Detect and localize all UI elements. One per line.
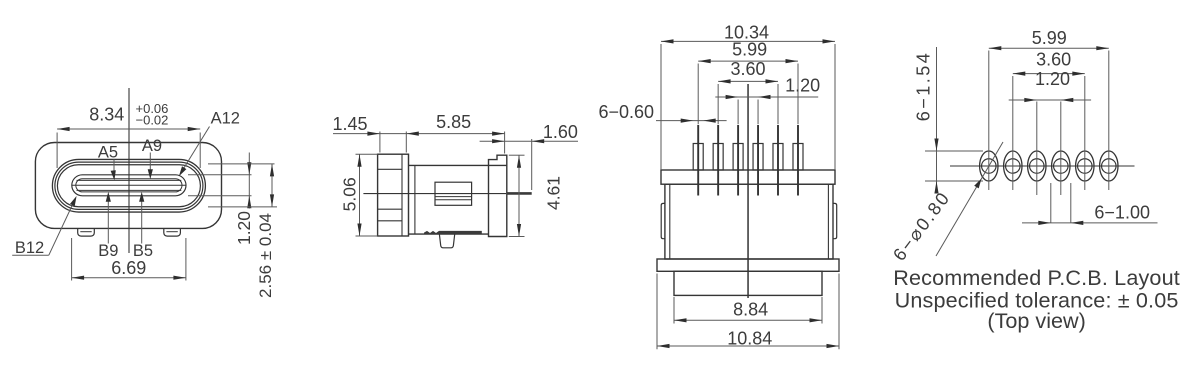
svg-text:1.20: 1.20 (234, 211, 254, 245)
dimension 2.56 +/- 0.04 (vertical) (208, 163, 275, 165)
centerline view1 (128, 88, 130, 253)
svg-text:5.99: 5.99 (1032, 28, 1067, 48)
dimension 10.84 (656, 274, 658, 350)
svg-text:5.06: 5.06 (339, 177, 359, 211)
pad 2 outer (1004, 151, 1022, 181)
svg-text:2.56 ± 0.04: 2.56 ± 0.04 (256, 213, 275, 298)
svg-text:10.84: 10.84 (727, 329, 772, 349)
svg-text:6−0.60: 6−0.60 (599, 102, 655, 122)
bottom flange (657, 259, 839, 271)
dimension 10.34 (660, 44, 662, 170)
dimension 1.20 (view4) (1009, 99, 1091, 101)
pin 1 needle (697, 125, 699, 196)
shell opening pill (57, 165, 200, 207)
pad 5 outer (1076, 151, 1094, 181)
view 2: side view (332, 112, 578, 248)
svg-text:B9: B9 (98, 242, 118, 260)
pin 2 blade (713, 144, 723, 171)
dimension 8.84 (673, 297, 675, 324)
dimension 3.60 (view4) (1013, 73, 1085, 75)
dimension 5.06 (vertical) (356, 153, 378, 155)
pad 3 outer (1028, 151, 1046, 181)
dimension 5.99 (view4) (989, 47, 1109, 49)
svg-text:A5: A5 (98, 144, 118, 162)
pin 4 blade (753, 144, 763, 171)
view 1: receptacle front view (12, 88, 277, 298)
pad 3 hole (1030, 159, 1045, 174)
svg-text:1.20: 1.20 (1035, 69, 1070, 89)
pin 5 needle (777, 125, 779, 196)
label 6-dia0.80 with diagonal leader (936, 142, 1003, 256)
bottom plate (674, 271, 822, 295)
left ear (661, 203, 665, 238)
view 3: rear/pin side view (599, 22, 839, 349)
svg-text:6−1.00: 6−1.00 (1094, 203, 1150, 223)
svg-text:6−1.54: 6−1.54 (914, 51, 934, 122)
svg-text:4.61: 4.61 (543, 176, 563, 210)
svg-text:5.85: 5.85 (436, 112, 471, 132)
pad 6 outer (1100, 151, 1118, 181)
main body housing (665, 184, 833, 259)
svg-text:1.45: 1.45 (332, 114, 367, 134)
pin 5 blade (773, 144, 783, 171)
svg-text:1.20: 1.20 (785, 75, 820, 95)
svg-text:8.84: 8.84 (733, 299, 768, 319)
dimension 1.20 (vertical) (188, 174, 252, 176)
pad 1 hole (982, 159, 997, 174)
dimension 6.69 (71, 238, 73, 281)
svg-text:B12: B12 (15, 239, 44, 257)
flange inner lines (378, 168, 402, 170)
view 4: recommended PCB layout (889, 28, 1180, 333)
horizontal centerline view2 (363, 193, 506, 195)
latch detail rectangle (435, 182, 472, 205)
barrel body (409, 164, 507, 166)
svg-text:3.60: 3.60 (730, 59, 765, 79)
svg-text:(Top view): (Top view) (987, 308, 1085, 333)
pad 4 hole (1054, 159, 1069, 174)
tongue inner pill (76, 179, 182, 192)
centerline view3 (747, 84, 749, 298)
dimension 3.60 (view3) (717, 84, 719, 124)
pad 2 hole (1006, 159, 1021, 174)
pad 1 outer (980, 151, 998, 181)
dimension 5.99 (view3) (697, 64, 699, 125)
bottom peg (439, 234, 454, 248)
svg-text:6.69: 6.69 (111, 258, 146, 278)
pin 6 needle (797, 125, 799, 196)
rear block (489, 155, 507, 236)
dimension 1.45 (379, 132, 381, 153)
dimension 5.85 (504, 132, 506, 154)
svg-text:−0.02: −0.02 (136, 113, 169, 128)
mounting foot right (164, 229, 181, 236)
pin 3 blade (733, 144, 743, 171)
pin 1 blade (693, 144, 703, 171)
pad row centerline horizontal (950, 165, 1135, 167)
tongue contact lines (77, 179, 182, 181)
pin 3 needle (737, 125, 739, 196)
solder pad strip with serration (424, 231, 482, 234)
top flange bar (661, 170, 835, 184)
svg-text:8.34: 8.34 (89, 104, 124, 124)
svg-text:5.99: 5.99 (732, 40, 767, 60)
tongue outer pill (72, 175, 186, 196)
svg-text:A9: A9 (142, 137, 162, 155)
shell outer pill (52, 159, 205, 212)
pin 4 needle (757, 125, 759, 196)
shell middle pill (55, 162, 203, 209)
svg-text:3.60: 3.60 (1036, 50, 1071, 70)
dimension 8.34 +0.06/-0.02 (56, 133, 58, 169)
pin 2 needle (717, 125, 719, 196)
right ear (833, 203, 837, 238)
svg-text:A12: A12 (211, 109, 240, 127)
front flange plate (378, 154, 409, 236)
dimension 1.20 (view3) (737, 100, 739, 125)
dimension 1.60 (480, 140, 578, 142)
connector body outline (35, 143, 221, 229)
dimension 6-1.00 (1050, 183, 1052, 223)
svg-text:Recommended P.C.B. Layout: Recommended P.C.B. Layout (893, 265, 1180, 290)
pad 4 outer (1052, 151, 1070, 181)
rear solder pin (507, 192, 532, 195)
mounting foot left (78, 229, 95, 236)
pad 5 hole (1078, 159, 1093, 174)
pin 6 blade (793, 144, 803, 171)
pad extension verticals (988, 51, 990, 191)
svg-text:1.60: 1.60 (543, 122, 578, 142)
dimension 6-1.54 (vertical) (925, 150, 983, 152)
pad 6 hole (1102, 159, 1117, 174)
dimension 4.61 (vertical) (509, 154, 525, 156)
svg-text:B5: B5 (133, 242, 153, 260)
